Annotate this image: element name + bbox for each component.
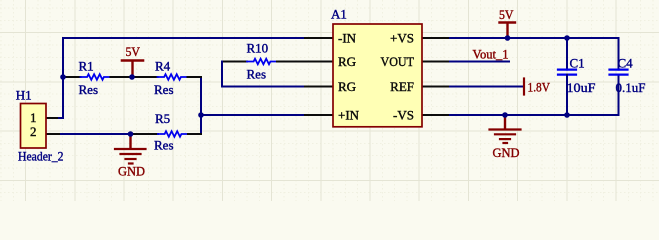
pin RG1 stub — [305, 61, 333, 63]
junction node C1 top — [564, 35, 570, 41]
svg-text:A1: A1 — [331, 7, 347, 22]
wire +VS rail to C4 — [450, 38, 619, 70]
svg-text:R5: R5 — [155, 111, 170, 126]
pin REF stub — [422, 86, 451, 88]
junction node R1 left — [60, 74, 66, 80]
ground GND (right) — [490, 115, 521, 160]
capacitor C4 — [610, 56, 646, 96]
power port 5V (left) — [122, 44, 143, 77]
svg-text:C4: C4 — [618, 56, 634, 71]
svg-text:0.1uF: 0.1uF — [616, 80, 646, 95]
junction node GND/pin2 — [128, 131, 134, 137]
capacitor C1 — [558, 38, 596, 115]
svg-text:GND: GND — [118, 164, 145, 179]
op-amp U A1 — [331, 7, 422, 127]
pin -IN stub — [305, 37, 333, 39]
wire REF — [450, 86, 524, 88]
svg-text:C1: C1 — [570, 56, 585, 71]
svg-text:1: 1 — [30, 110, 37, 125]
junction node 5V/+VS — [505, 35, 511, 41]
svg-text:5V: 5V — [126, 44, 141, 59]
svg-text:-IN: -IN — [338, 31, 357, 46]
svg-text:GND: GND — [493, 145, 520, 160]
pin -VS stub — [422, 114, 451, 116]
wire -VS rail to C4 — [450, 75, 619, 115]
resistor R10 — [222, 41, 306, 82]
svg-text:RG: RG — [338, 79, 356, 94]
svg-text:-VS: -VS — [393, 108, 414, 123]
svg-text:Res: Res — [79, 82, 99, 97]
wire R10 loop left vertical + bottom to RG2 — [222, 62, 306, 87]
ground GND (left) — [115, 134, 146, 179]
wire +IN — [201, 114, 306, 116]
svg-text:10uF: 10uF — [567, 80, 596, 95]
resistor R5 — [131, 111, 201, 153]
wire pin2 row — [46, 133, 132, 135]
svg-text:Res: Res — [154, 138, 174, 153]
svg-text:Header_2: Header_2 — [18, 149, 64, 164]
junction node 5V/R1/R4 — [129, 74, 135, 80]
svg-text:R4: R4 — [155, 59, 171, 74]
svg-text:REF: REF — [390, 79, 414, 94]
svg-text:+VS: +VS — [390, 31, 414, 46]
pin VOUT stub — [422, 61, 451, 63]
power port 5V (right) — [499, 7, 515, 38]
power port 1.8V bar — [524, 79, 551, 95]
svg-text:VOUT: VOUT — [381, 54, 415, 69]
svg-text:R10: R10 — [247, 41, 269, 56]
svg-text:H1: H1 — [16, 87, 32, 102]
junction node C1 bottom — [564, 112, 570, 118]
junction node +IN tap — [198, 112, 204, 118]
pin +VS stub — [422, 37, 451, 39]
svg-text:2: 2 — [30, 124, 37, 139]
svg-text:+IN: +IN — [338, 108, 360, 123]
wire R4 right to +IN and R5 (vertical x=201) — [200, 77, 202, 134]
wire VOUT — [450, 61, 509, 63]
svg-text:Res: Res — [154, 82, 174, 97]
svg-text:5V: 5V — [499, 7, 514, 22]
resistor R4 — [132, 59, 201, 98]
svg-text:RG: RG — [338, 54, 356, 69]
junction node GND/-VS — [502, 112, 508, 118]
resistor R1 — [63, 59, 132, 98]
pin RG2 stub — [305, 86, 333, 88]
svg-text:Res: Res — [247, 67, 267, 82]
wire pin1 to top rail and -IN — [46, 38, 306, 118]
connector H1 — [16, 87, 64, 163]
svg-text:1.8V: 1.8V — [528, 80, 551, 95]
pin +IN stub — [305, 114, 333, 116]
svg-text:Vout_1: Vout_1 — [473, 47, 509, 62]
svg-text:R1: R1 — [79, 59, 94, 74]
